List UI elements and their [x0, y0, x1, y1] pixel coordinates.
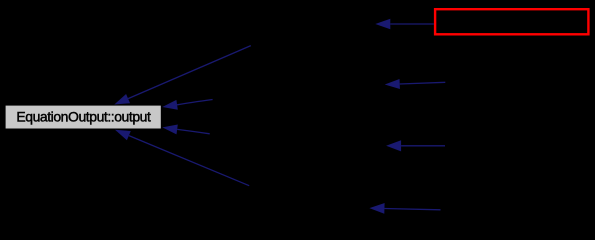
edge 1 arrowhead [375, 19, 390, 30]
node EquationOutput::output (central node, grey) [6, 106, 161, 129]
edge 4 arrowhead [369, 203, 384, 214]
edge C arrowhead [162, 125, 178, 135]
svg-text:EquationOutput::output: EquationOutput::output [16, 109, 151, 125]
edge C: third caller -> EquationOutput::output (line) [162, 125, 209, 135]
edge D: bottom caller -> EquationOutput::output (line) [115, 130, 249, 186]
edge A: top caller -> EquationOutput::output (line) [114, 46, 251, 105]
edge B: second caller -> EquationOutput::output (line) [162, 100, 212, 110]
node (red truncated box, top right) [435, 9, 588, 34]
edge 1: red box -> hidden node (line) [375, 19, 434, 30]
edge 3: hidden caller level2 -> hidden node (line) [386, 140, 445, 151]
edge D arrowhead [115, 130, 131, 140]
edge B arrowhead [162, 100, 178, 110]
edge 2 arrowhead [385, 79, 400, 89]
edge A arrowhead [114, 94, 130, 105]
edge 2: hidden caller level2 -> hidden node (line) [385, 79, 446, 89]
edge 4: hidden caller level2 -> hidden node (line) [369, 203, 440, 214]
edge 3 arrowhead [386, 140, 401, 151]
